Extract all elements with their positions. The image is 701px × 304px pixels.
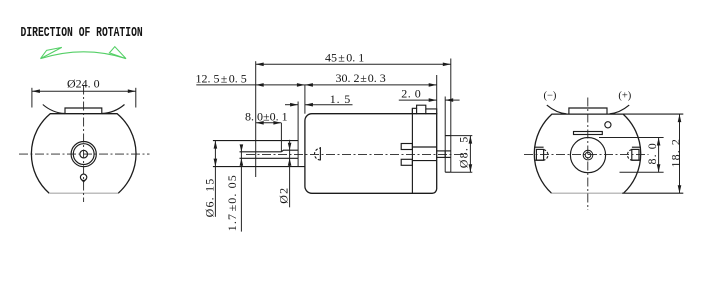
svg-text:8. 0: 8. 0 xyxy=(645,142,659,164)
svg-text:18. 2: 18. 2 xyxy=(668,138,682,168)
svg-text:Ø8. 5: Ø8. 5 xyxy=(457,136,471,169)
svg-text:12. 5±0. 5: 12. 5±0. 5 xyxy=(196,72,247,86)
svg-text:1. 5: 1. 5 xyxy=(330,92,351,106)
svg-text:DIRECTION OF ROTATION: DIRECTION OF ROTATION xyxy=(21,24,143,40)
svg-text:2. 0: 2. 0 xyxy=(401,86,421,100)
svg-text:8. 0±0. 1: 8. 0±0. 1 xyxy=(245,110,288,124)
svg-text:(+): (+) xyxy=(618,91,631,102)
svg-text:Ø2: Ø2 xyxy=(277,187,291,204)
svg-text:Ø6. 15: Ø6. 15 xyxy=(203,178,217,218)
svg-text:1.7±0. 05: 1.7±0. 05 xyxy=(225,174,239,231)
svg-text:30. 2±0. 3: 30. 2±0. 3 xyxy=(336,71,386,85)
svg-text:45±0. 1: 45±0. 1 xyxy=(325,51,364,65)
svg-text:(−): (−) xyxy=(544,91,557,102)
svg-text:Ø24. 0: Ø24. 0 xyxy=(67,77,100,91)
